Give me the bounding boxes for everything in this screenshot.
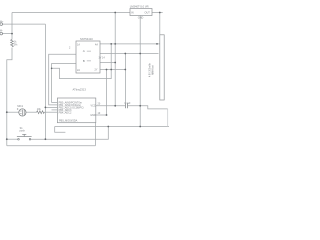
wire long vertical net xyxy=(44,24,46,139)
wire vertical x125.3 xyxy=(124,54,126,104)
wire driver out R2 xyxy=(100,53,159,55)
svg-text:VCC: VCC xyxy=(91,104,96,107)
connector J1 pin2 circle xyxy=(0,32,3,35)
wire vertical x106.5 xyxy=(106,70,108,116)
wire button to riser xyxy=(31,127,108,140)
svg-text:20: 20 xyxy=(98,103,101,106)
svg-text:push: push xyxy=(20,130,26,133)
svg-text:SN754410: SN754410 xyxy=(80,37,93,41)
wire MCU row3 lead xyxy=(45,106,57,108)
wire driver out R4 xyxy=(100,69,125,71)
svg-text:2: 2 xyxy=(69,47,71,50)
svg-text:2A: 2A xyxy=(77,69,80,72)
svg-text:ATtiny2313: ATtiny2313 xyxy=(73,87,87,91)
svg-text:A: A xyxy=(83,49,86,53)
voltage regulator U2 box xyxy=(130,9,152,16)
wire driver out R3 xyxy=(100,62,115,64)
wire MCU rowA to cap xyxy=(96,105,125,107)
wire mic to rail xyxy=(7,111,19,113)
wire top rail xyxy=(12,12,163,14)
svg-text:M-: M- xyxy=(0,30,3,33)
resistor R1 xyxy=(37,111,45,114)
wire MCU rowB xyxy=(96,114,107,116)
capacitor C1 xyxy=(125,103,127,108)
wire driver B input xyxy=(52,64,76,103)
wire driver out R1 xyxy=(100,43,160,45)
svg-text:4.8V 300mAh: 4.8V 300mAh xyxy=(149,62,152,77)
svg-text:3Y 14: 3Y 14 xyxy=(99,56,106,59)
svg-text:OUT: OUT xyxy=(145,12,151,15)
wire right edge link xyxy=(167,109,169,127)
wire MCU row4 lead xyxy=(52,109,58,111)
wire connector J1 pin1 to vertical xyxy=(3,23,46,25)
svg-text:10k: 10k xyxy=(37,108,42,111)
svg-text:1A: 1A xyxy=(77,44,80,47)
svg-text:NiMH bat: NiMH bat xyxy=(151,65,154,75)
connector J1 pin1 circle xyxy=(0,23,3,26)
wire resistor to MCU row5 xyxy=(44,111,57,113)
svg-text:GND: GND xyxy=(90,114,96,117)
wire bottom net A stub xyxy=(55,127,66,133)
wire left rail xyxy=(7,13,12,146)
wire connector J1 pin2 xyxy=(3,33,13,35)
pushbutton S1 xyxy=(17,134,32,140)
wire vertical x115.2 xyxy=(114,13,116,106)
microcontroller U1 box xyxy=(57,98,95,123)
resistor R2 vertical on left rail xyxy=(11,40,14,47)
wire regulator ground drop xyxy=(139,16,141,127)
wire mic to resistor xyxy=(26,111,37,113)
wire MCU ground drop xyxy=(94,123,96,146)
svg-text:0.1uF: 0.1uF xyxy=(124,102,131,105)
svg-text:2Y: 2Y xyxy=(95,69,98,72)
svg-text:4A: 4A xyxy=(95,44,98,47)
svg-text:GND: GND xyxy=(138,17,144,20)
wire right rail to header xyxy=(159,13,161,35)
svg-text:M+: M+ xyxy=(0,20,4,23)
wire under-box loop xyxy=(52,44,112,79)
svg-text:LM340T-5.0 VR: LM340T-5.0 VR xyxy=(130,5,149,9)
wire bottom net A xyxy=(55,126,169,128)
svg-text:PB4_ADC2: PB4_ADC2 xyxy=(59,111,72,114)
microphone MIC1 xyxy=(17,108,26,116)
motor driver U3 box xyxy=(76,41,100,73)
svg-text:MIC1: MIC1 xyxy=(17,105,23,108)
svg-text:B: B xyxy=(83,59,85,63)
wire driver A input xyxy=(49,54,76,105)
wire bottom rail xyxy=(7,145,96,147)
header J2 box xyxy=(160,35,164,100)
wire cap to right xyxy=(128,106,168,109)
svg-text:IN: IN xyxy=(131,12,134,15)
svg-text:5%: 5% xyxy=(14,44,17,46)
svg-text:PB5_MOSI/SDA: PB5_MOSI/SDA xyxy=(59,119,78,122)
wire rail to button xyxy=(7,138,18,140)
svg-text:1k: 1k xyxy=(14,42,17,44)
